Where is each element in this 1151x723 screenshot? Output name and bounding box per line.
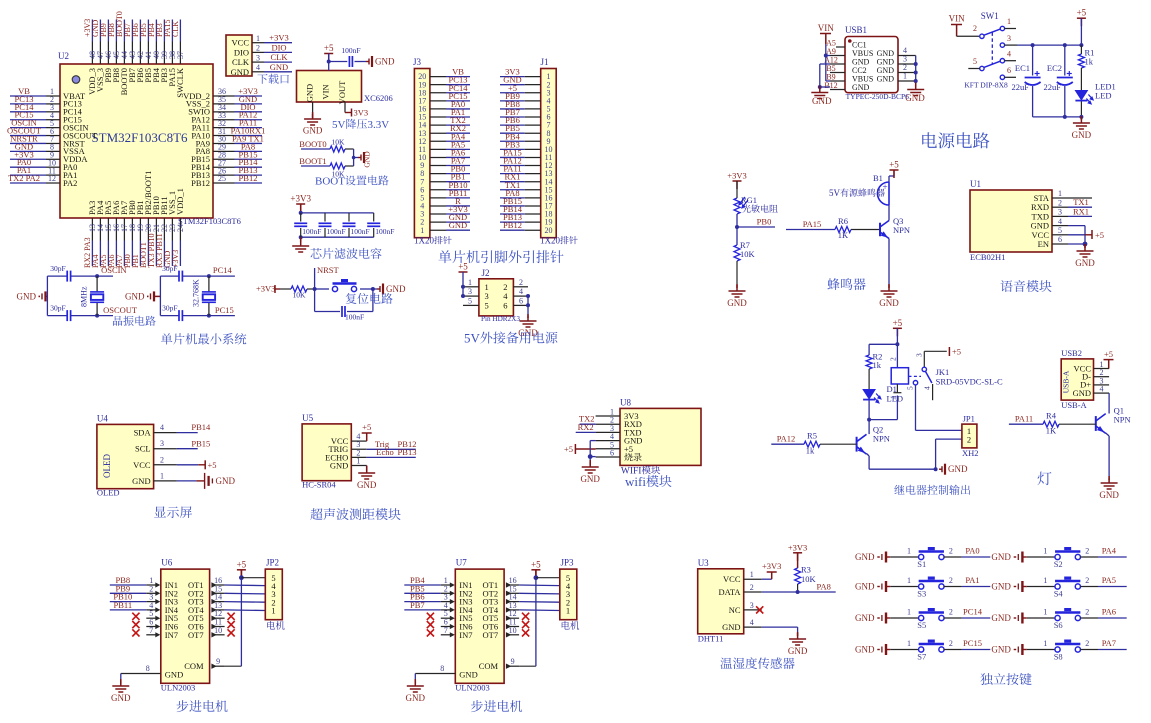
svg-text:30pF: 30pF	[162, 264, 177, 273]
svg-text:GND: GND	[788, 646, 808, 656]
svg-text:5: 5	[906, 386, 915, 390]
wire net PA7 (J3)	[446, 165, 470, 167]
svg-text:VCC: VCC	[723, 574, 741, 584]
label 5V有源蜂鸣器	[829, 188, 885, 198]
svg-text:30pF: 30pF	[50, 304, 65, 313]
wire net PB7	[131, 20, 133, 42]
wire net PB15 (J1)	[500, 205, 525, 207]
label WIFI模块	[621, 466, 660, 477]
svg-text:U6: U6	[161, 558, 172, 568]
title 灯	[1038, 472, 1052, 486]
svg-text:PB12: PB12	[191, 178, 210, 188]
svg-text:1: 1	[1058, 189, 1062, 198]
svg-text:R6: R6	[838, 216, 848, 226]
U2 right pin 29 PA8	[213, 150, 235, 152]
svg-text:GND: GND	[727, 298, 747, 308]
wire key S5 pin2	[944, 617, 962, 619]
U2 left pin 7 NRST	[46, 142, 60, 144]
svg-text:GND: GND	[305, 84, 315, 102]
wire net RX2 (J3)	[446, 132, 470, 134]
svg-text:VIN: VIN	[321, 84, 331, 99]
U2 bottom pin 15 PA5	[107, 218, 109, 241]
wire net PB8 (J1)	[500, 108, 525, 110]
IC U8 WIFI body	[620, 408, 701, 465]
svg-text:+3V3: +3V3	[290, 194, 311, 204]
svg-text:3: 3	[1007, 34, 1011, 43]
IC U3 DHT11 body	[698, 569, 744, 634]
svg-text:SRD-05VDC-SL-C: SRD-05VDC-SL-C	[936, 377, 1003, 387]
power +5 relay contact	[948, 347, 950, 356]
wire net PB0 (J3)	[446, 173, 470, 175]
no-connect X on IN6 (U6)	[132, 621, 139, 628]
wire Q3 collector to buzzer	[888, 205, 890, 221]
SW1 blade 2-1	[984, 29, 1001, 35]
svg-text:100nF: 100nF	[351, 227, 370, 236]
svg-text:10: 10	[509, 626, 517, 635]
svg-text:R3: R3	[801, 565, 811, 575]
svg-text:7: 7	[149, 626, 153, 635]
svg-text:8: 8	[146, 664, 150, 673]
wire OT2 to JP3 pin 3	[519, 592, 560, 595]
U2 top pin 43 PB7	[131, 42, 133, 65]
wire DATA net PA8	[762, 591, 836, 593]
svg-text:OLED: OLED	[97, 488, 120, 498]
svg-text:1: 1	[1043, 547, 1047, 556]
wire net PC14 (key S5)	[962, 617, 991, 619]
wire USB2 gnd pin to Q1 collector	[1108, 393, 1110, 413]
title 单片机最小系统	[161, 333, 246, 344]
svg-text:GND: GND	[580, 474, 600, 484]
resistor R7 10K	[734, 245, 740, 261]
wire net PA8	[235, 150, 263, 152]
net label PA12	[771, 443, 804, 445]
U2 left pin 1 VBAT	[46, 95, 60, 97]
svg-text:PA7: PA7	[1102, 638, 1116, 648]
svg-text:LED: LED	[1095, 91, 1112, 101]
wire net PB10 (J3)	[446, 189, 470, 191]
U2 bottom pin 14 PA4	[99, 218, 101, 241]
wire key S6 pin2	[1081, 617, 1099, 619]
svg-text:VOUT: VOUT	[337, 80, 347, 104]
U2 bottom pin 19 PB1	[139, 218, 141, 241]
wire net PA5 (key S4)	[1098, 586, 1127, 588]
wire net VB	[10, 95, 46, 97]
svg-text:wifi: wifi	[625, 474, 646, 489]
U2 bottom pin 21 PB10	[155, 218, 157, 241]
svg-text:GND: GND	[449, 220, 467, 230]
svg-text:GND: GND	[375, 57, 395, 67]
ground J2	[527, 316, 529, 318]
wire net TX2 wifi	[580, 423, 596, 425]
IC U4 OLED body	[97, 424, 154, 488]
wire +5 distribution rail	[1017, 44, 1081, 46]
svg-text:GND: GND	[459, 670, 477, 680]
svg-text:12: 12	[48, 174, 56, 183]
svg-text:SCL: SCL	[135, 444, 151, 454]
resistor R5 1k	[804, 441, 820, 447]
svg-text:1K: 1K	[1046, 426, 1057, 436]
wire net PC14 (J3)	[446, 92, 470, 94]
wire COM to +5	[225, 665, 242, 667]
svg-text:DHT11: DHT11	[698, 634, 724, 644]
svg-text:+5: +5	[952, 347, 961, 357]
svg-text:GND: GND	[17, 292, 37, 302]
svg-text:PB11: PB11	[114, 600, 133, 610]
wire gnd to key S8 pin1	[1027, 649, 1055, 651]
svg-text:6: 6	[610, 449, 614, 458]
svg-text:+5: +5	[1077, 8, 1087, 18]
svg-text:5: 5	[468, 296, 472, 305]
resistor 10K BOOT1	[330, 163, 345, 169]
crystal Y1 8MHz	[95, 274, 99, 278]
power +5 OLED	[177, 464, 198, 466]
wire net PB8	[115, 20, 117, 42]
svg-text:RX1: RX1	[1073, 206, 1089, 216]
no-connect X on NC	[756, 606, 763, 613]
power +5 HC-SR04	[366, 433, 368, 441]
svg-text:IN7: IN7	[165, 630, 178, 640]
wire net GND	[264, 71, 292, 73]
ground power circuit	[1080, 117, 1082, 120]
svg-text:U8: U8	[620, 398, 631, 408]
svg-text:+3V3: +3V3	[788, 542, 807, 552]
svg-text:9: 9	[511, 657, 515, 666]
power +5 J2	[459, 271, 468, 273]
wire net PB11 (J3)	[446, 197, 470, 199]
svg-text:JP2: JP2	[266, 558, 279, 568]
SW1 pin 3	[1000, 43, 1004, 47]
svg-text:EN: EN	[1038, 239, 1049, 249]
svg-text:+5: +5	[324, 43, 334, 53]
SW1 blade 5-4	[984, 61, 1001, 67]
transistor Q2 NPN	[857, 434, 867, 454]
wire net PB4 (J1)	[500, 140, 525, 142]
U2 right pin 26 PB13	[213, 174, 235, 176]
wire OT3 to JP2 pin 2	[225, 601, 266, 604]
svg-text:1: 1	[1043, 608, 1047, 617]
svg-text:+5: +5	[531, 559, 541, 569]
svg-text:4: 4	[519, 287, 523, 296]
svg-text:PC14: PC14	[963, 607, 983, 617]
power +5 rail top	[1077, 18, 1086, 26]
wire OT1 to JP3 pin 4	[519, 584, 560, 587]
wire net +3V3	[10, 158, 46, 160]
wire net RX1	[1068, 215, 1092, 217]
U2 bottom pin 24 VDD_1	[179, 218, 181, 241]
svg-text:GND: GND	[879, 298, 899, 308]
no-connect X on OT5 (U7)	[522, 613, 529, 620]
wire net PB6 (U7)	[404, 601, 441, 603]
wire net PB15	[177, 448, 198, 450]
wire key S4 pin2	[1081, 586, 1099, 588]
svg-text:6: 6	[503, 300, 507, 310]
wire net +5 (J1)	[500, 92, 525, 94]
label 1X20排针 under J1	[540, 236, 578, 246]
resistor R6 1K	[835, 227, 851, 233]
U2 top pin 46 PB9	[107, 42, 109, 65]
svg-text:1k: 1k	[806, 446, 815, 456]
svg-text:5V: 5V	[829, 188, 841, 198]
svg-text:1: 1	[160, 471, 164, 480]
wire net BOOT0	[123, 20, 125, 42]
SW1 pin 2	[980, 34, 984, 38]
title 蜂鸣器	[827, 278, 865, 290]
wire crystal left rail (Y2)	[159, 276, 161, 316]
svg-text:5V: 5V	[332, 119, 346, 131]
svg-text:+3V3: +3V3	[269, 33, 288, 43]
wire net PB12	[235, 182, 263, 184]
U2 bottom pin 13 PA3	[91, 218, 93, 241]
regulator U? XC6206 body	[297, 71, 362, 103]
wire J2 right join	[527, 296, 529, 316]
svg-text:COM: COM	[479, 661, 499, 671]
wire EC1 branch	[1032, 45, 1034, 75]
ground buzzer left	[736, 285, 738, 288]
svg-text:U2: U2	[58, 51, 69, 61]
ground tap OLED	[177, 480, 197, 482]
no-connect X on IN7 (U7)	[427, 629, 434, 636]
power +5 (U6)	[237, 570, 246, 578]
svg-text:NRST: NRST	[317, 265, 340, 275]
svg-text:NC: NC	[729, 605, 741, 615]
wire net PB11 (U6)	[110, 609, 147, 611]
wire VOUT to 3V3	[344, 102, 346, 113]
svg-text:PA12: PA12	[777, 434, 796, 444]
svg-text:J3: J3	[413, 57, 422, 67]
svg-text:PB12: PB12	[503, 220, 522, 230]
ground U1	[1084, 244, 1086, 248]
wire net PB5 (U7)	[404, 592, 441, 594]
svg-text:1: 1	[256, 34, 260, 43]
label 电机 (JP2)	[267, 621, 285, 630]
capacitor 30pF bottom (Y2)	[179, 310, 182, 321]
svg-text:3: 3	[750, 601, 754, 610]
svg-text:2: 2	[256, 44, 260, 53]
wire +5 to JP2 pin 5	[241, 577, 265, 579]
svg-text:GND: GND	[855, 582, 875, 592]
capacitor 100nF at XC6206	[329, 61, 348, 63]
U2 left pin 10 PA0	[46, 166, 60, 168]
power +3V3 filter caps	[296, 204, 305, 212]
U2 left pin 5 OSCIN	[46, 127, 60, 129]
wire key S1 pin2	[944, 556, 962, 558]
svg-text:5: 5	[973, 57, 977, 66]
svg-text:2: 2	[949, 547, 953, 556]
svg-text:+5: +5	[893, 318, 903, 328]
connector J3 1X20 header body	[414, 69, 430, 238]
power +5 (U7)	[531, 570, 540, 578]
svg-text:J2: J2	[482, 268, 490, 278]
wire net PB14	[177, 432, 198, 434]
svg-text:EC1: EC1	[1015, 63, 1030, 73]
svg-text:STM32F103C8T6: STM32F103C8T6	[91, 130, 188, 145]
svg-text:PA4: PA4	[1102, 546, 1117, 556]
title BOOT设置电路	[315, 175, 389, 187]
svg-text:1: 1	[1007, 17, 1011, 26]
wire gnd to key S5 pin1	[890, 617, 918, 619]
svg-text:PA5: PA5	[1102, 575, 1116, 585]
U2 left pin 11 PA1	[46, 174, 60, 176]
svg-text:1: 1	[271, 606, 275, 616]
svg-text:GND: GND	[330, 460, 348, 470]
ground tap reset	[373, 288, 377, 290]
transistor Q1 NPN	[1096, 414, 1106, 434]
wire net PB6 (J1)	[500, 124, 525, 126]
wire net PA8 (J1)	[500, 197, 525, 199]
wire crystal top (Y1)	[47, 275, 67, 277]
wire net GND (J3)	[446, 221, 470, 223]
svg-text:+5: +5	[458, 262, 468, 272]
power VIN bar	[951, 24, 962, 26]
title 复位电路	[346, 293, 393, 304]
svg-text:1: 1	[907, 608, 911, 617]
no-connect X on OT7 (U6)	[228, 629, 235, 636]
svg-text:100nF: 100nF	[345, 313, 364, 322]
U8 pin 6 烧录	[624, 453, 641, 461]
title 温湿度传感器	[720, 657, 794, 669]
svg-text:GND: GND	[1099, 490, 1119, 500]
svg-text:5V: 5V	[464, 331, 481, 346]
svg-text:BOOT0: BOOT0	[299, 139, 326, 149]
svg-text:100nF: 100nF	[327, 227, 346, 236]
svg-text:2: 2	[949, 576, 953, 585]
svg-text:SW1: SW1	[981, 11, 999, 21]
title 步进电机 (U6)	[177, 700, 228, 712]
wire crystal bottom (Y1)	[47, 315, 67, 317]
svg-text:22uF: 22uF	[1012, 82, 1030, 92]
svg-text:PA2: PA2	[63, 178, 77, 188]
title 显示屏	[154, 506, 192, 518]
wire net PA0 (key S1)	[962, 556, 991, 558]
ground U7	[414, 674, 416, 681]
wire net OSCOUT	[10, 135, 46, 137]
svg-text:+5: +5	[1104, 349, 1113, 359]
capacitor 100nF reset	[314, 289, 316, 312]
svg-text:GND: GND	[1072, 130, 1092, 140]
svg-text:1K: 1K	[838, 230, 849, 240]
svg-text:VDD_1: VDD_1	[175, 188, 185, 215]
U1 pin1 stub	[1068, 197, 1092, 199]
wire net TX1 (J1)	[500, 189, 525, 191]
svg-text:6: 6	[1007, 66, 1011, 75]
svg-text:GND: GND	[855, 645, 875, 655]
svg-text:USB1: USB1	[845, 25, 867, 35]
svg-text:OT7: OT7	[188, 630, 204, 640]
svg-text:PC15: PC15	[215, 305, 234, 315]
svg-text:RX2: RX2	[578, 422, 594, 432]
title 晶振电路	[113, 316, 156, 326]
svg-text:+5: +5	[1095, 230, 1104, 240]
button S3	[919, 584, 945, 589]
svg-text:2: 2	[949, 639, 953, 648]
svg-text:JP3: JP3	[561, 558, 575, 568]
svg-text:10K: 10K	[801, 574, 817, 584]
relay contact pin 4	[932, 384, 934, 400]
wire net R (J3)	[446, 205, 470, 207]
no-connect X on OT7 (U7)	[522, 629, 529, 636]
wire net PB5 (J1)	[500, 132, 525, 134]
relay JK1 coil	[896, 344, 898, 367]
svg-text:USB-A: USB-A	[1061, 400, 1087, 410]
capacitor 100nF filter 2	[324, 213, 326, 222]
wire gnd to key S6 pin1	[1027, 617, 1055, 619]
svg-text:GND: GND	[991, 645, 1011, 655]
wire net CLK	[179, 20, 181, 42]
IC U7 ULN2003 body	[455, 569, 504, 683]
net label PB0	[737, 226, 775, 228]
wire net PA12	[235, 119, 263, 121]
svg-text:9: 9	[216, 657, 220, 666]
svg-text:OSCIN: OSCIN	[101, 265, 127, 275]
svg-text:GND: GND	[877, 75, 895, 84]
wire OT1 to JP2 pin 4	[225, 584, 266, 587]
wire net PA11 (J1)	[500, 173, 525, 175]
U2 top pin 42 PB6	[139, 42, 141, 65]
ground GND pin XC6206	[312, 102, 314, 114]
wire EC2 branch	[1064, 45, 1066, 75]
svg-text:BOOT1: BOOT1	[299, 156, 326, 166]
svg-text:GND: GND	[948, 464, 968, 474]
button S6	[1055, 615, 1080, 620]
U2 top pin 48 VDD_3	[91, 42, 93, 65]
wire crystal bottom (Y2)	[160, 315, 178, 317]
svg-text:ULN2003: ULN2003	[455, 683, 489, 693]
svg-text:+5: +5	[362, 422, 371, 432]
svg-text:CLK: CLK	[271, 52, 289, 62]
svg-text:TX2 PA2: TX2 PA2	[8, 173, 40, 183]
svg-text:NPN: NPN	[1114, 415, 1131, 425]
wire net PA0 (J3)	[446, 108, 470, 110]
svg-text:JP1: JP1	[963, 414, 975, 424]
wire net PA1	[10, 174, 46, 176]
U2 top pin 41 PB5	[147, 42, 149, 65]
wire net OSCIN	[10, 127, 46, 129]
capacitor 100nF filter 4	[373, 213, 375, 222]
svg-text:3: 3	[915, 353, 924, 357]
wire net PB12 (J1)	[500, 229, 525, 231]
capacitor EC1 22uF	[1025, 78, 1041, 86]
svg-text:CLK: CLK	[232, 57, 250, 67]
svg-text:+5: +5	[208, 460, 217, 470]
svg-text:STM32F103C8T6: STM32F103C8T6	[178, 216, 241, 226]
svg-text:NPN: NPN	[873, 434, 890, 444]
title 5V外接备用电源	[464, 331, 557, 346]
svg-text:3: 3	[1058, 208, 1062, 217]
U2 top pin 39 PB3	[163, 42, 165, 65]
wire net PB14	[235, 166, 263, 168]
svg-text:HC-SR04: HC-SR04	[302, 480, 336, 490]
ground buzzer right	[888, 285, 890, 288]
net label PA15	[786, 229, 835, 231]
svg-text:PA8: PA8	[817, 582, 831, 592]
wire coil bottom to LED node	[869, 419, 897, 421]
svg-text:1: 1	[889, 395, 898, 399]
svg-text:1: 1	[903, 72, 907, 81]
svg-text:PB14: PB14	[191, 422, 211, 432]
svg-text:2: 2	[1085, 576, 1089, 585]
wire net PA0	[10, 166, 46, 168]
wire net +3V3	[264, 42, 292, 44]
U2 bottom pin 17 PA7	[123, 218, 125, 241]
resistor R2 1k	[868, 344, 870, 355]
U2 right pin 28 PB15	[213, 158, 235, 160]
ground USB1 right	[907, 83, 924, 96]
svg-text:JK1: JK1	[936, 367, 950, 377]
svg-text:GND: GND	[852, 83, 870, 92]
wire filter top rail	[301, 212, 374, 214]
U2 right pin 35 VSS_2	[213, 103, 235, 105]
svg-text:S3: S3	[917, 589, 926, 599]
